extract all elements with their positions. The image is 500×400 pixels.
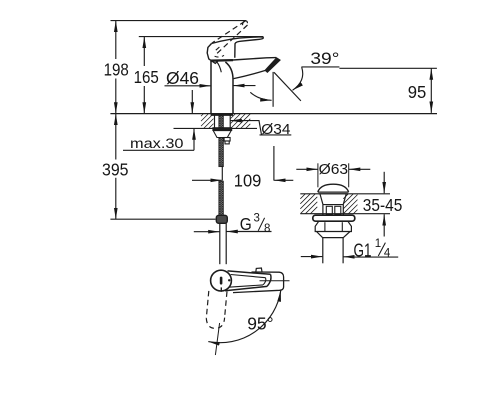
- hole edge left: [214, 114, 216, 129]
- dim G3/8 right arrow + underline: [226, 231, 238, 233]
- handle dashed small arcs near pivot: [215, 55, 224, 57]
- 39deg label underline: [301, 66, 339, 68]
- shank washer: [213, 128, 232, 131]
- dim 165 vertical line: [143, 37, 145, 66]
- left angle arc w/ arrow: [250, 92, 271, 100]
- svg-text:1: 1: [375, 238, 381, 250]
- braided hose upper segment: [219, 115, 223, 167]
- spout outlet wedge (aerator face): [265, 58, 280, 73]
- spout underside curve: [234, 71, 265, 79]
- dashed handle position: left edge: [206, 291, 209, 318]
- drain washer: [313, 215, 355, 221]
- spout rect top bump: [256, 268, 262, 272]
- dim 395 bottom extension line: [110, 218, 215, 220]
- dashed handle tip cap: [206, 318, 224, 329]
- mounting plate hatch left: [201, 114, 214, 129]
- mounting stud: [224, 138, 230, 142]
- dashed handle position: right edge: [225, 291, 227, 317]
- dim Ø63 extent lines: [317, 163, 319, 187]
- svg-text:Ø63: Ø63: [319, 162, 349, 178]
- 95deg arc w/ arrows: [208, 290, 280, 342]
- svg-text:Ø34: Ø34: [261, 121, 290, 138]
- mounting surface top line: [110, 113, 437, 115]
- dim G3/8 left arrow: [194, 231, 220, 233]
- dim 109 right tick: [273, 146, 275, 181]
- G3/8 pipe right edge: [225, 223, 227, 264]
- handle solid: blade top edge: [212, 37, 264, 44]
- drain valve neck taper: [320, 194, 346, 204]
- dim 198 vertical line: [115, 21, 117, 59]
- max.30 upper arrow: [191, 90, 193, 114]
- dim G1 1/4 left arrow: [301, 256, 323, 258]
- 39deg leader arc w/ arrow: [293, 67, 303, 90]
- svg-text:39°: 39°: [310, 49, 339, 68]
- svg-text:max.30: max.30: [130, 136, 184, 152]
- blade bottom edge: [225, 286, 267, 290]
- svg-text:165: 165: [134, 67, 159, 87]
- handle dashed tip curl: [243, 21, 248, 25]
- svg-text:109: 109: [234, 171, 261, 191]
- dim 109 left tick: [221, 166, 223, 181]
- braided hose lower segment: [219, 181, 223, 215]
- svg-text:3: 3: [254, 213, 260, 225]
- blade inner top line: [231, 275, 266, 278]
- dim 95 vertical line: [430, 68, 432, 113]
- blade top edge: [228, 271, 271, 274]
- svg-text:4: 4: [384, 247, 391, 259]
- faucet body left edge: [210, 61, 212, 114]
- mounting plate hatch right: [231, 114, 251, 129]
- body right fillet curve: [225, 62, 233, 114]
- handle dashed lower edge: [217, 25, 248, 54]
- hole edge right: [229, 114, 231, 129]
- dim 109 left arrow: [192, 179, 222, 181]
- drain taper to pipe: [317, 232, 351, 238]
- drain tailpipe: [322, 238, 324, 263]
- 39deg vertical ref line at aerator: [272, 72, 274, 107]
- dim 395 vertical line: [115, 114, 117, 160]
- solid position axis line: [260, 280, 290, 282]
- drain dome cap: [318, 184, 349, 192]
- drain surface top line: [300, 193, 390, 195]
- hose connector nut: [216, 215, 227, 223]
- handle solid: body polygon: [207, 44, 218, 64]
- max.30 lower arrow + leader: [193, 128, 195, 150]
- dim 109 right arrow: [274, 179, 293, 181]
- G 3/8 label: [240, 213, 271, 235]
- dim 165 top extension line: [139, 36, 264, 38]
- svg-text:95: 95: [408, 82, 427, 102]
- svg-text:95°: 95°: [247, 313, 273, 333]
- svg-text:G1: G1: [354, 240, 372, 260]
- svg-text:35-45: 35-45: [363, 195, 403, 215]
- dim Ø34 underline: [260, 134, 292, 136]
- pivot circle: [211, 270, 232, 291]
- dim Ø63 right arrow: [349, 168, 370, 170]
- 95 top reference line: [339, 67, 437, 69]
- dim 35-45 lower arrow: [383, 214, 385, 236]
- bottom tick on circle: [220, 287, 222, 291]
- blade tip arc: [267, 274, 271, 286]
- svg-text:395: 395: [102, 160, 129, 180]
- dashed position axis extension: [215, 323, 219, 355]
- small dot: [228, 279, 230, 281]
- dim Ø34 leader w/ arrow: [241, 121, 262, 135]
- G1 1/4 label: [354, 238, 391, 260]
- dim 35-45 upper arrow: [383, 172, 385, 194]
- drain surface hatch left: [300, 194, 317, 214]
- dim Ø46 right arrow: [233, 85, 255, 87]
- G3/8 pipe left edge: [219, 223, 221, 264]
- faucet base bottom thick line: [211, 113, 233, 115]
- svg-text:Ø46: Ø46: [166, 68, 199, 88]
- dim 198 top extension line: [111, 20, 247, 22]
- spout rectangle: [233, 272, 284, 293]
- drain surface bottom line: [300, 213, 390, 215]
- body front contour curve: [217, 62, 222, 73]
- drain cap rim lines: [318, 191, 349, 193]
- shank nut: [213, 131, 231, 138]
- spout top edge: [233, 58, 276, 60]
- drain surface hatch right: [343, 194, 357, 214]
- drain valve window: [323, 204, 343, 206]
- blade inner bottom line: [229, 285, 263, 287]
- 39deg stream diagonal: [274, 72, 301, 101]
- dim Ø63 left arrow: [296, 168, 317, 170]
- dim G1 1/4 right arrow + underline: [343, 256, 353, 258]
- mounting plate bottom line: [174, 127, 258, 129]
- cartridge bar: [220, 277, 223, 285]
- drain valve body sides: [322, 204, 324, 215]
- handle dashed (raised position) upper edge: [212, 21, 245, 43]
- drain locknut: [315, 221, 351, 231]
- blade inner tip arc: [263, 278, 266, 285]
- faucet body top thick band: [210, 59, 233, 62]
- svg-text:8: 8: [264, 223, 270, 235]
- svg-text:G: G: [240, 214, 252, 234]
- svg-text:198: 198: [104, 60, 129, 80]
- handle solid: tip + underside: [235, 38, 264, 58]
- dim Ø46 leader left w/ arrow: [165, 85, 211, 87]
